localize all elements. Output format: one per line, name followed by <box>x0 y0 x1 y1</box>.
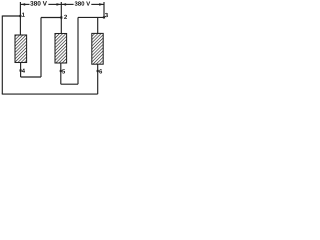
wire below element 2 <box>60 63 62 84</box>
wire dimension line span 2-3 left part <box>61 3 73 5</box>
wire jumper 5-3 bottom horizontal <box>61 83 78 85</box>
resistor element 1 (clamps 1-4) <box>15 35 27 63</box>
clamp 5 dot <box>60 70 62 72</box>
wire vertical line 2 <box>60 2 62 34</box>
label clamp 3 <box>105 13 108 17</box>
wire dimension line span 2-3 right part <box>91 3 104 5</box>
wire bottom bus <box>2 93 98 95</box>
clamp 4 dot <box>20 69 22 71</box>
wire jumper 5-3 top horizontal <box>78 16 104 18</box>
wire below element 3 <box>97 64 99 94</box>
wire jumper 5-3 vertical <box>77 17 79 84</box>
label 380 V span 1-2 <box>30 1 47 6</box>
label clamp 2 <box>64 15 67 19</box>
node 2 junction dot <box>60 16 62 18</box>
label 380 V span 2-3 <box>75 1 91 5</box>
wire jumper 4-2 vertical <box>40 18 42 78</box>
label clamp 6 <box>99 69 102 73</box>
clamp 6 dot <box>97 70 99 72</box>
wire vertical line 1 <box>19 2 21 35</box>
arrowhead right of span 1-2 <box>57 3 61 6</box>
label clamp 5 <box>62 69 65 73</box>
resistor element 3 (clamps 3-6) <box>92 33 103 64</box>
arrowhead right of span 2-3 <box>99 3 103 6</box>
wire feed element 3 top <box>97 17 99 33</box>
wire dimension line span 1-2 left part <box>20 3 29 5</box>
node 1 junction dot <box>19 15 21 17</box>
label clamp 1 <box>22 13 25 17</box>
wire left link node1 <box>2 15 20 17</box>
arrowhead left of span 1-2 <box>21 3 25 6</box>
wire dimension line span 1-2 right part <box>48 3 61 5</box>
resistor element 2 (clamps 2-5) <box>55 34 67 64</box>
wire below element 1 <box>20 62 22 77</box>
wire outer left vertical <box>1 16 3 95</box>
arrowhead left of span 2-3 <box>62 3 66 6</box>
label clamp 4 <box>22 69 25 73</box>
wire jumper 4-2 bottom horizontal <box>21 76 41 78</box>
node 3 junction dot <box>103 16 105 18</box>
wire vertical stub 3 <box>103 2 105 17</box>
wire jumper 4-2 top horizontal <box>41 17 61 19</box>
